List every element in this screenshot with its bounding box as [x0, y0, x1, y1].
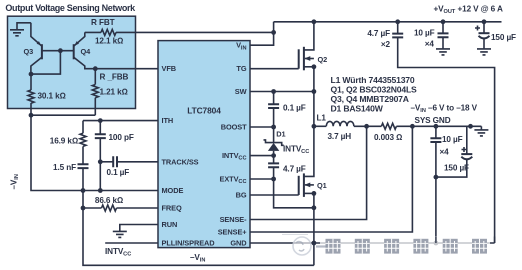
resistor 30.1k: [28, 74, 66, 115]
svg-text:Q3, Q4 MMBT2907A: Q3, Q4 MMBT2907A: [331, 94, 409, 104]
svg-text:1.21 kΩ: 1.21 kΩ: [100, 87, 128, 96]
svg-text:12.1 kΩ: 12.1 kΩ: [95, 36, 123, 45]
svg-text:INTVCC: INTVCC: [283, 145, 309, 156]
node -VIN / Q1 source: [312, 205, 317, 210]
svg-text:SENSE+: SENSE+: [218, 228, 248, 237]
node TRACK/SS branch: [98, 159, 103, 164]
svg-text:0.1 µF: 0.1 µF: [283, 104, 306, 113]
Q4 base bar: [73, 44, 75, 59]
svg-text:R FBT: R FBT: [91, 18, 115, 27]
svg-text:10 µF: 10 µF: [442, 135, 463, 144]
wire Q1 source down: [313, 193, 315, 265]
node 10uF rail: [441, 19, 446, 24]
inductor L1 3.7uH: [314, 114, 382, 141]
node GND / input caps: [434, 241, 439, 246]
wire SENSE+: [250, 126, 412, 232]
resistor 16.9k: [50, 121, 86, 165]
svg-text:10 µF: 10 µF: [414, 28, 435, 37]
Q3 collector: [31, 57, 42, 74]
svg-text:D1: D1: [276, 130, 285, 139]
watermark logo: [320, 236, 490, 256]
Q4 collector: [74, 57, 96, 68]
svg-text:×4: ×4: [425, 40, 435, 49]
wire: Q3 collector-base tie: [31, 51, 61, 74]
svg-text:Q1, Q2 BSC032N04LS: Q1, Q2 BSC032N04LS: [331, 84, 418, 94]
wire SW: [250, 91, 314, 93]
svg-text:0.003 Ω: 0.003 Ω: [374, 133, 402, 142]
svg-text:R _FBB: R _FBB: [100, 72, 129, 81]
transistor Q1: [299, 126, 327, 197]
svg-text:TRACK/SS: TRACK/SS: [162, 157, 199, 166]
svg-text:–VIN: –VIN: [190, 253, 205, 264]
capacitor 150uF (input, polarized): [436, 126, 472, 177]
node: sensing bottom: [29, 113, 34, 118]
wire EXTVCC: [250, 178, 274, 180]
svg-text:Q1: Q1: [317, 181, 327, 190]
svg-text:Q3: Q3: [24, 47, 34, 56]
wire: output cap return stub over watermark: [494, 237, 496, 244]
svg-text:30.1 kΩ: 30.1 kΩ: [38, 92, 66, 101]
svg-text:FREQ: FREQ: [162, 204, 182, 213]
svg-text:BG: BG: [236, 191, 247, 200]
node MODE row right: [98, 188, 103, 193]
svg-text:Output Voltage Sensing Network: Output Voltage Sensing Network: [5, 3, 136, 13]
svg-text:4.7 µF: 4.7 µF: [367, 29, 390, 38]
resistor 0.003 ohm: [374, 123, 481, 142]
transistor Q3: [24, 23, 42, 74]
wire RUN: [120, 225, 158, 232]
wire INTVCC: [250, 155, 274, 157]
svg-text:Q2: Q2: [318, 55, 328, 64]
resistor R FBT 12.1k: [85, 18, 274, 45]
capacitor 10uF x4 (input): [430, 126, 462, 243]
wire: -VIN left rail: [31, 115, 158, 190]
svg-text:BOOST: BOOST: [221, 123, 247, 132]
node BOOST / D1: [271, 125, 276, 130]
svg-text:3.7 µH: 3.7 µH: [328, 132, 352, 141]
node: Q3 collector: [29, 72, 34, 77]
svg-text:SENSE-: SENSE-: [220, 215, 248, 224]
svg-text:L1 Würth 7443551370: L1 Würth 7443551370: [331, 75, 415, 85]
capacitor 100pF: [95, 121, 134, 191]
capacitor 1.5nF: [53, 163, 88, 190]
node L1 / SW: [312, 124, 317, 129]
resistor 86.6k: [83, 196, 158, 211]
svg-text:TG: TG: [236, 64, 246, 73]
wire PLLIN/SPREAD: [105, 242, 158, 244]
transistor Q4: [74, 32, 96, 68]
node SW / 0.1uF: [271, 89, 276, 94]
svg-text:MODE: MODE: [162, 186, 184, 195]
svg-text:D1 BAS140W: D1 BAS140W: [331, 103, 384, 113]
node R FBT / VIN: [271, 30, 276, 35]
wire +VOUT top rail: [274, 21, 502, 23]
watermark text: [326, 239, 488, 254]
svg-text:100 pF: 100 pF: [109, 133, 134, 142]
ground (RUN): [113, 231, 127, 237]
node: base junction: [58, 48, 63, 53]
node SENSE- tap: [364, 124, 369, 129]
capacitor 4.7uF (INTVCC): [268, 156, 306, 179]
svg-text:4.7 µF: 4.7 µF: [283, 165, 306, 174]
node EXTVCC: [271, 177, 276, 182]
ground (output 150uF): [477, 49, 491, 55]
node: VFB / R_FBB top: [93, 66, 98, 71]
node FREQ branch: [81, 206, 86, 211]
svg-text:RUN: RUN: [162, 220, 178, 229]
wire -VIN vertical to bottom rail: [83, 191, 314, 266]
capacitor 4.7uF x2 (output): [367, 22, 494, 243]
svg-text:16.9 kΩ: 16.9 kΩ: [50, 137, 78, 146]
node 10uF input: [434, 124, 439, 129]
node SW / Q2 source: [312, 89, 317, 94]
node input caps bottom: [434, 175, 439, 180]
svg-text:LTC7804: LTC7804: [187, 105, 221, 115]
svg-text:86.6 kΩ: 86.6 kΩ: [95, 196, 123, 205]
wire EXTVCC to -VIN: [274, 179, 314, 208]
wire ITH: [83, 120, 158, 122]
wire BOOST: [250, 126, 274, 128]
svg-text:–VIN: –VIN: [10, 174, 21, 189]
capacitor 0.1uF (TRACK/SS): [100, 156, 158, 177]
svg-text:SYS GND: SYS GND: [415, 116, 451, 125]
svg-text:PLLIN/SPREAD: PLLIN/SPREAD: [162, 239, 216, 248]
wire: bottom tie: [31, 114, 95, 116]
svg-text:GND: GND: [230, 239, 247, 248]
wire: Q3 emitter to ground: [31, 23, 42, 46]
wire: input cap stub over watermark: [435, 237, 437, 244]
svg-text:150 µF: 150 µF: [491, 33, 516, 42]
wire BG: [250, 194, 299, 196]
node SENSE+ tap: [410, 124, 415, 129]
resistor R _FBB 1.21k: [92, 69, 128, 116]
svg-text:0.1 µF: 0.1 µF: [107, 168, 130, 177]
svg-text:SW: SW: [235, 87, 247, 96]
capacitor 150uF (output, polarized): [475, 22, 516, 49]
svg-text:VFB: VFB: [162, 64, 176, 73]
diode D1 (schottky): [264, 127, 286, 156]
node 4.7uF rail: [395, 19, 400, 24]
svg-text:ITH: ITH: [162, 116, 174, 125]
node 150uF rail: [482, 19, 487, 24]
node MODE row left: [81, 188, 86, 193]
svg-text:–VIN –6 V to –18 V: –VIN –6 V to –18 V: [411, 104, 478, 115]
wire: Q3/Q4 base tie: [42, 50, 74, 52]
sensing network box: [8, 16, 136, 108]
wire TG: [250, 68, 299, 70]
node ITH branch: [98, 118, 103, 123]
Q3 base bar: [41, 44, 43, 59]
node 150uF input: [468, 124, 473, 129]
IC U1 LTC7804: [158, 41, 250, 248]
node Q2 source: [312, 64, 317, 69]
svg-text:1.5 nF: 1.5 nF: [53, 163, 76, 172]
Q4 emitter: [74, 32, 85, 46]
ground (sensing network): [10, 23, 31, 36]
svg-text:Q4: Q4: [81, 47, 92, 56]
node Q1 source: [312, 191, 317, 196]
node INTVCC: [271, 153, 276, 158]
svg-text:×2: ×2: [381, 40, 391, 49]
wire SENSE-: [250, 126, 367, 219]
svg-text:150 µF: 150 µF: [444, 163, 469, 172]
wire VIN to top rail: [250, 22, 274, 45]
wire GND: [250, 242, 495, 244]
ground (output 10uF): [436, 49, 450, 55]
ground (SYS GND): [480, 126, 482, 130]
svg-text:×4: ×4: [440, 148, 450, 157]
capacitor 10uF x4 (output): [414, 22, 449, 49]
transistor Q2: [299, 22, 327, 71]
wire Q2 source to L1 node: [313, 67, 315, 127]
wire: VFB: [95, 68, 158, 70]
svg-text:INTVCC: INTVCC: [105, 247, 131, 258]
annotation: component values: [331, 75, 418, 114]
svg-text:L1: L1: [317, 114, 327, 123]
node Q2 drain: [312, 19, 317, 24]
svg-text:+VOUT +12 V @ 6 A: +VOUT +12 V @ 6 A: [434, 5, 503, 16]
capacitor 0.1uF (BOOST): [268, 92, 306, 128]
node GND / Q1 source: [312, 241, 317, 246]
